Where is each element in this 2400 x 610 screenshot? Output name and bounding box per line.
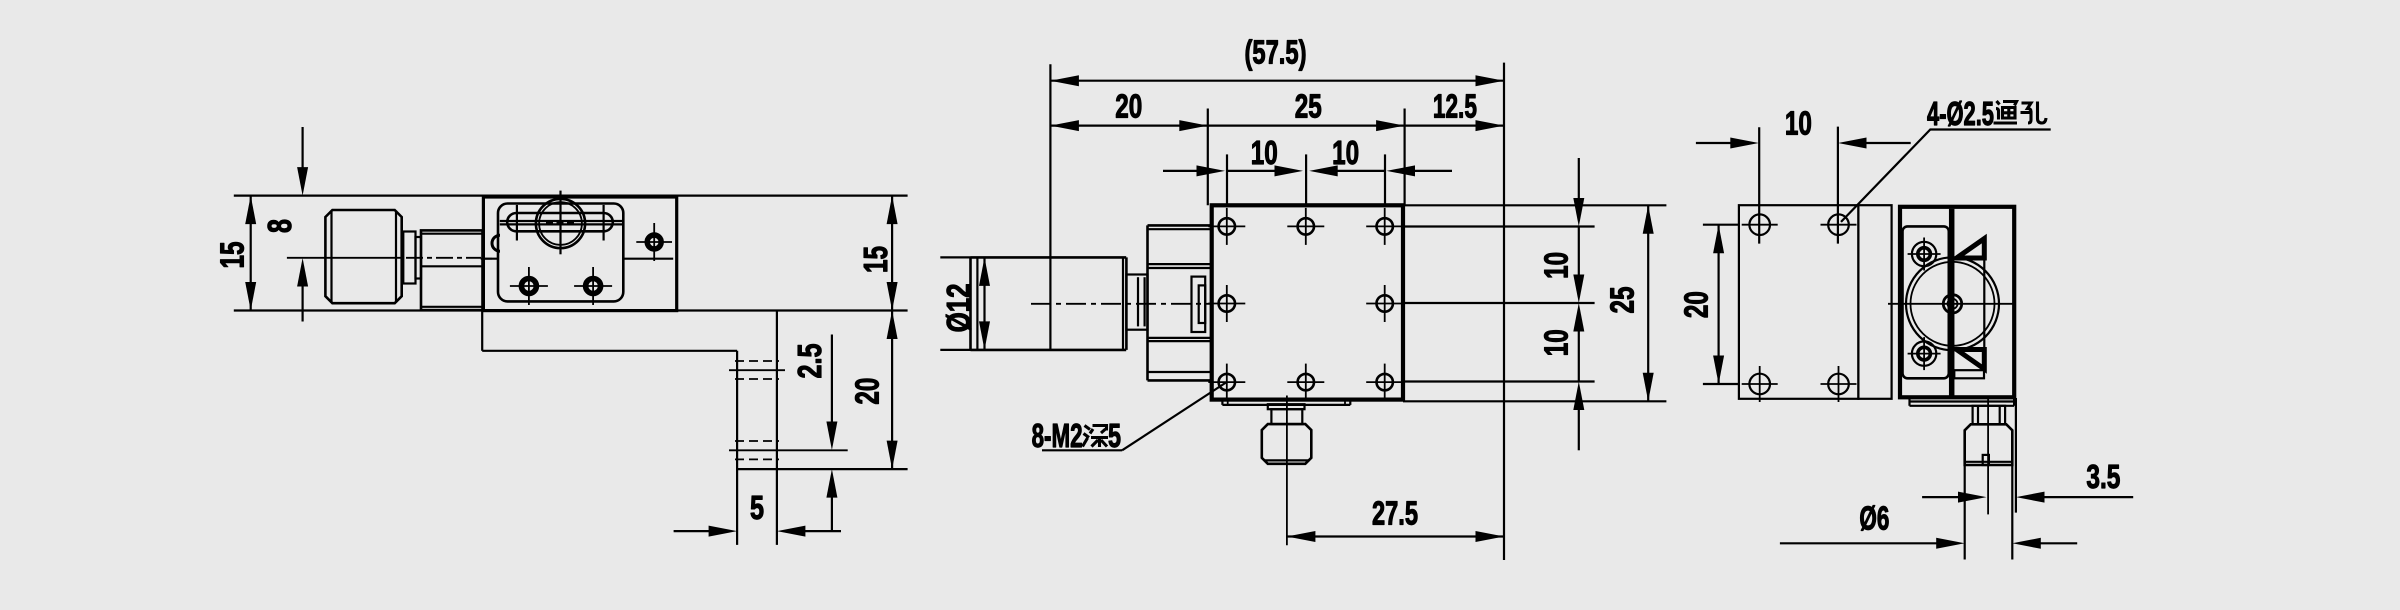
foot bottom line xyxy=(737,468,908,470)
svg-text:10: 10 xyxy=(1251,135,1278,172)
spindle ring xyxy=(416,237,422,279)
svg-text:25: 25 xyxy=(1604,287,1641,314)
right screw hole crosshair xyxy=(636,241,672,243)
dimension 5 left arrow xyxy=(674,530,714,532)
dimension 2.5 lower arrow xyxy=(831,491,833,530)
slot inner groove xyxy=(500,220,623,222)
knob bottom inner line xyxy=(1966,461,2011,463)
svg-text:8-M2: 8-M2 xyxy=(1032,418,1083,455)
knob inner edge right xyxy=(395,211,397,303)
foot upper hole centerline xyxy=(729,369,785,371)
CJK glyph "shen" (deep) xyxy=(1083,426,1091,447)
bottom lock knob stem xyxy=(1271,409,1302,424)
dimension 10 upper (rows) xyxy=(1578,158,1580,205)
stage block (thick) xyxy=(1900,207,2014,397)
svg-text:5: 5 xyxy=(750,490,764,527)
base plate under square xyxy=(1222,404,1350,406)
clamp block top edge xyxy=(1148,224,1211,227)
CJK glyph "kong" (hole) xyxy=(2021,102,2047,124)
dimension 25 top xyxy=(1208,124,1405,126)
svg-text:8: 8 xyxy=(262,219,299,233)
hole column exts xyxy=(1226,154,1228,205)
spindle bushing xyxy=(1126,275,1147,330)
lower side screw inner xyxy=(1918,347,1931,360)
bushing inner top line xyxy=(421,233,483,235)
clamp bottom lines xyxy=(1148,371,1211,373)
knob inner edge left xyxy=(330,211,332,303)
upper side screw outer xyxy=(1912,242,1936,266)
spindle adapter rect xyxy=(1192,277,1206,332)
dimension 5 right arrow xyxy=(800,530,841,532)
svg-text:10: 10 xyxy=(1539,252,1576,279)
svg-text:12.5: 12.5 xyxy=(1433,89,1477,126)
dimension 27.5 xyxy=(1287,535,1504,537)
micrometer knob body xyxy=(325,210,401,303)
svg-text:10: 10 xyxy=(1539,329,1576,356)
dimension 2.5 upper arrow xyxy=(831,335,833,429)
dimension dia6 xyxy=(1780,542,1943,544)
lock knob body xyxy=(1965,424,2013,465)
dimension 8 upper arrow xyxy=(302,127,304,174)
micrometer bushing block xyxy=(421,230,483,310)
bushing inner bottom line xyxy=(421,306,483,308)
svg-text:2.5: 2.5 xyxy=(792,344,829,379)
svg-text:25: 25 xyxy=(1295,89,1322,126)
top thumbscrew circle outer xyxy=(536,199,585,248)
svg-text:10: 10 xyxy=(1332,135,1359,172)
bushing mid line xyxy=(421,265,483,267)
knob axis centerline xyxy=(1031,303,1210,305)
svg-text:20: 20 xyxy=(850,378,887,405)
top reference line xyxy=(234,195,908,197)
upper side screw inner xyxy=(1918,248,1931,261)
dovetail pointer upper xyxy=(1957,239,1985,258)
dimension 12.5 top xyxy=(1405,124,1504,126)
dimension 20 (right) line xyxy=(891,311,893,470)
M2 holes 3x3 minus centre xyxy=(1208,208,1403,401)
carriage rounded plate xyxy=(498,204,623,302)
bushing step lines xyxy=(1137,277,1139,326)
svg-text:5: 5 xyxy=(1108,418,1121,455)
spindle collar xyxy=(403,232,415,284)
spindle adapter inner rect xyxy=(1199,285,1206,323)
leader 4-dia2.5 xyxy=(1841,130,2051,222)
spindle tip circle xyxy=(1943,295,1961,313)
knob divider + dim ext line xyxy=(1049,64,1051,350)
lock screw stem xyxy=(1973,406,2006,425)
body interface line segments xyxy=(481,258,498,260)
clamp boss upper lines xyxy=(1148,263,1211,265)
knob right face double xyxy=(1122,257,1124,350)
dia6 shaft lines xyxy=(1964,465,1966,560)
bottom-right screw hole (bold ring) xyxy=(586,279,601,294)
foot lower hole centerline xyxy=(729,449,848,451)
axis centerline xyxy=(287,257,402,259)
svg-text:20: 20 xyxy=(1679,291,1716,318)
CJK glyph "tong" (through) xyxy=(1994,101,2018,123)
dimension 20 (right view) xyxy=(1717,225,1719,384)
leader 8-M2 xyxy=(1122,383,1226,451)
dimension 10 (right view) xyxy=(1696,142,1736,144)
micrometer barrel circle inner xyxy=(1911,262,1995,346)
square left ext xyxy=(1207,109,1209,206)
gib divider (thick) xyxy=(1949,209,1955,396)
knob cylinder top xyxy=(971,256,1127,259)
bottom lock knob body xyxy=(1262,424,1312,464)
svg-text:(57.5): (57.5) xyxy=(1245,35,1307,72)
dimension 25 right xyxy=(1647,205,1649,401)
slot capsule outer xyxy=(507,213,613,231)
svg-text:20: 20 xyxy=(1115,89,1142,126)
dimension dia12 line xyxy=(983,257,985,350)
svg-text:27.5: 27.5 xyxy=(1372,496,1418,533)
foot bar left edge xyxy=(736,351,738,545)
foot bar right edge xyxy=(776,311,778,545)
top dim extension right (57.5) xyxy=(1503,63,1505,560)
knob centerline ext xyxy=(1286,396,1288,546)
dimension 10 left (cols) xyxy=(1163,170,1203,172)
lower side screw outer xyxy=(1912,341,1936,365)
dia12 ext line bottom xyxy=(940,349,970,351)
dimension (57.5) xyxy=(1050,80,1504,82)
barrel vertical centerline xyxy=(1952,232,1954,387)
bottom lock knob flange xyxy=(1268,404,1305,409)
slot end radius vertical left xyxy=(516,205,518,241)
dimension 10 right (cols) xyxy=(1331,170,1385,172)
foot upper hidden hole dashes xyxy=(735,360,779,362)
block right edge ext xyxy=(2015,398,2017,513)
carriage side plate rounded xyxy=(1903,226,1949,378)
hole ext lines vertical xyxy=(1758,127,1760,243)
svg-text:15: 15 xyxy=(214,242,251,269)
foot lower hidden hole dashes xyxy=(735,440,779,442)
mounting plate xyxy=(1739,205,1859,399)
dimension 15 (left) arrow up xyxy=(245,196,256,225)
dimension 15 (right) line xyxy=(891,196,893,311)
left edge hole bump xyxy=(492,235,500,251)
right screw hole (bold ring) xyxy=(647,235,661,249)
svg-text:15: 15 xyxy=(858,246,895,273)
dovetail pointer lower xyxy=(1957,350,1985,370)
clamp boss lower lines xyxy=(1148,337,1211,339)
slot end radius vertical right xyxy=(602,205,604,241)
plate edge band xyxy=(1858,205,1891,399)
knob body inner bottom line xyxy=(1264,459,1310,461)
svg-text:4-Ø2.5: 4-Ø2.5 xyxy=(1927,96,1994,133)
svg-text:Ø6: Ø6 xyxy=(1859,501,1889,538)
dimension 20 top xyxy=(1050,124,1207,126)
base plate lines xyxy=(1910,400,2015,402)
dimension 8 lower arrow xyxy=(302,280,304,322)
dimension 15 (left) arrow down xyxy=(245,282,256,311)
knob centerline xyxy=(1987,397,1989,514)
thumbscrew horizontal dashes xyxy=(546,221,575,224)
bottom-left screw hole (bold ring) xyxy=(521,279,536,294)
dimension 15 (left) line xyxy=(250,196,252,311)
lower lip rect xyxy=(1954,370,1984,378)
svg-text:Ø12: Ø12 xyxy=(941,283,978,332)
L-bracket horizontal xyxy=(482,350,737,352)
knob cap inner line xyxy=(976,257,978,350)
bottom reference line xyxy=(234,309,908,311)
stage square body (thick) xyxy=(1212,205,1403,399)
right side row ext lines xyxy=(1403,204,1666,206)
dimension 10 lower (rows) xyxy=(1578,325,1580,382)
dimension 3.5 xyxy=(1922,496,1964,498)
dia12 ext line top xyxy=(940,256,970,258)
knob left face xyxy=(969,257,972,350)
knob cylinder bottom xyxy=(971,349,1127,352)
top thumbscrew circle inner xyxy=(539,202,582,245)
thumbscrew vertical centerline xyxy=(559,191,561,255)
dovetail edge line xyxy=(1983,239,1985,370)
square right ext xyxy=(1403,109,1405,206)
micrometer barrel circle outer xyxy=(1906,257,1999,350)
screwdriver slot xyxy=(1983,455,1989,465)
clamp block left edge xyxy=(1146,225,1149,380)
svg-text:3.5: 3.5 xyxy=(2086,459,2120,496)
barrel horizontal centerline xyxy=(1888,303,2013,305)
L-bracket left vertical xyxy=(481,311,483,351)
dimension 20 ext lines xyxy=(1703,224,1739,226)
svg-text:10: 10 xyxy=(1785,106,1812,143)
stage body (thick outline) xyxy=(483,197,676,311)
mounting holes 4x xyxy=(1742,214,1857,402)
